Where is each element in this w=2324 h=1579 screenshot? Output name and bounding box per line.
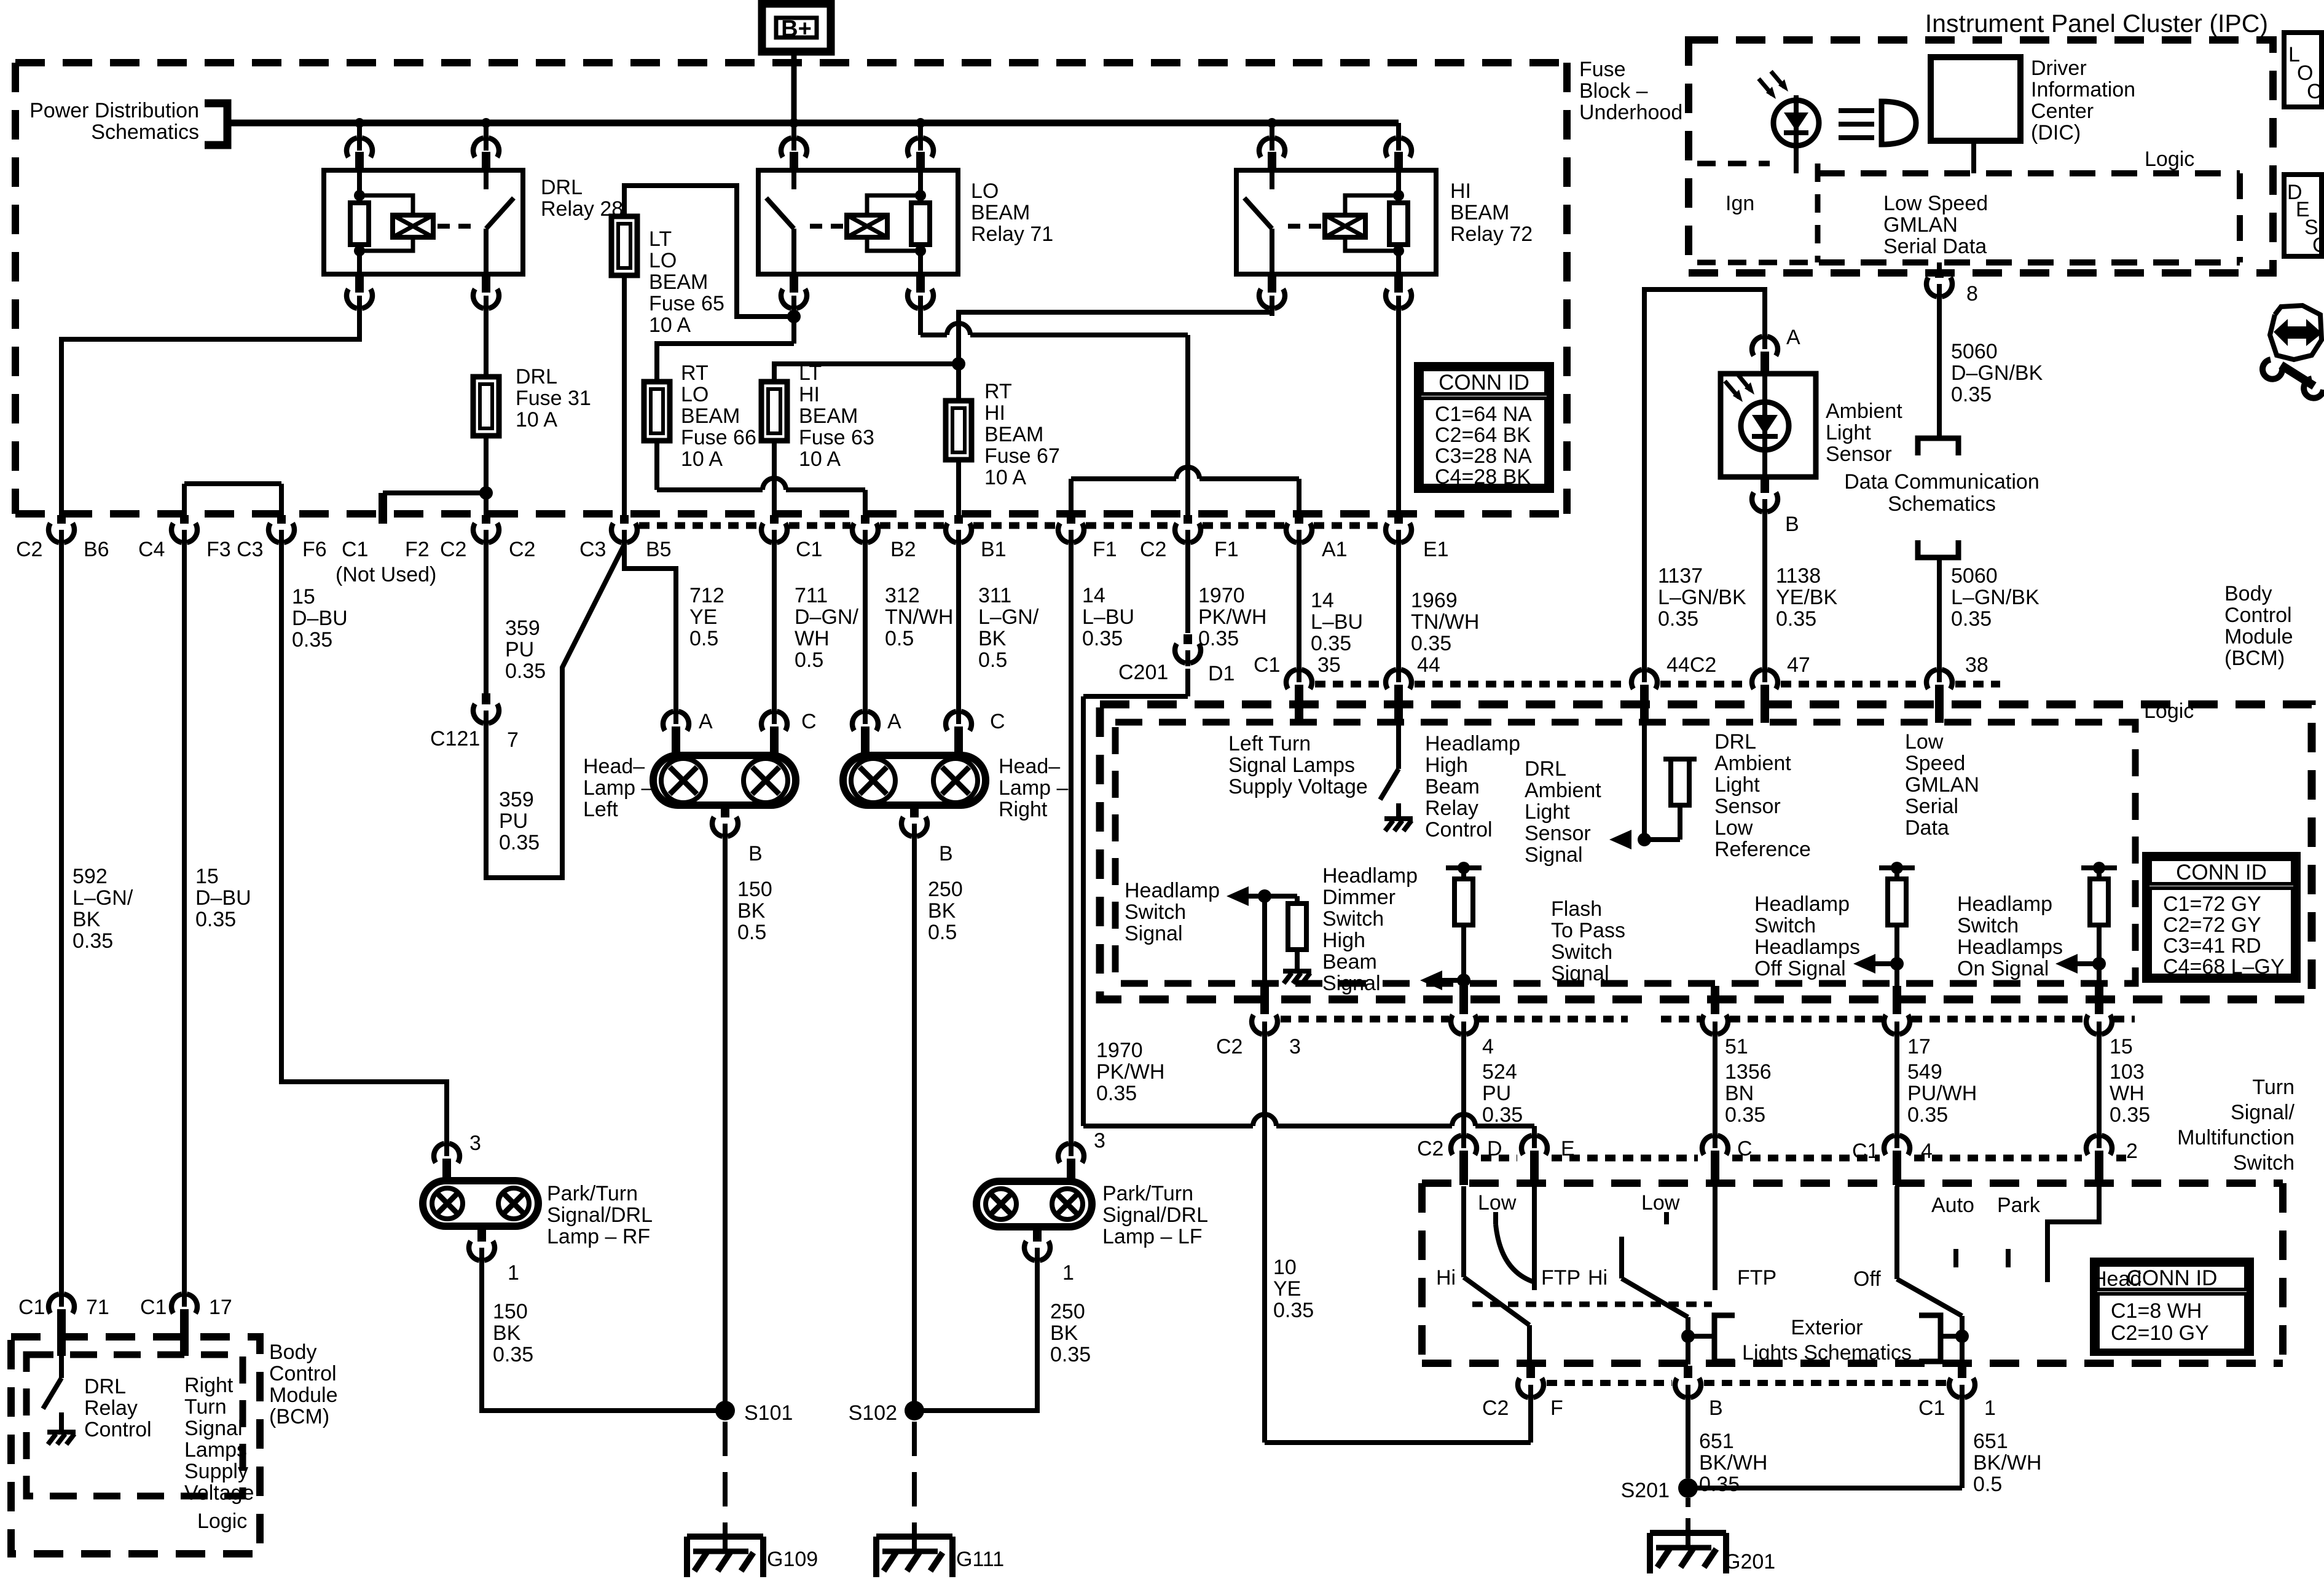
label Data Communication Schematics: [1844, 470, 2039, 516]
wire main bus: [227, 120, 1399, 127]
svg-text:Ambient: Ambient: [1714, 752, 1791, 775]
wire fuse63 to pin C1: [772, 441, 777, 515]
connector cup LO relay pin 85: [908, 274, 933, 316]
svg-text:0.5: 0.5: [885, 627, 914, 650]
labels switch bottom pins: [1482, 1396, 1996, 1420]
svg-text:BK: BK: [737, 899, 766, 923]
svg-text:GMLAN: GMLAN: [1905, 773, 1979, 797]
svg-text:Right: Right: [184, 1374, 234, 1397]
connector cup park lamp LF pin 3: [1058, 1140, 1084, 1181]
svg-text:A: A: [887, 710, 901, 733]
label (Not Used): [336, 563, 436, 586]
svg-text:C2=10 GY: C2=10 GY: [2111, 1321, 2209, 1345]
label pin B left headlamp: [748, 842, 763, 865]
label DRL Ambient Light Sensor Signal: [1525, 757, 1601, 867]
fuse block underhood dashed box: [15, 63, 1567, 514]
svg-text:Low: Low: [1714, 816, 1753, 840]
label 312 TN/WH 0.5: [885, 584, 953, 650]
label Headlamp Switch Headlamps Off Signal: [1754, 892, 1860, 980]
body control module 2 dashed box: [11, 1337, 260, 1554]
svg-text:Control: Control: [84, 1418, 152, 1441]
DRL relay coil symbol: [393, 215, 433, 237]
lamp Park/Turn Signal/DRL Lamp LF: [976, 1181, 1092, 1227]
svg-text:1970: 1970: [1096, 1039, 1143, 1062]
connector cup fuse block C2 pin B6: [49, 515, 74, 546]
lamp Headlamp Right: [843, 755, 986, 805]
svg-text:C2=72 GY: C2=72 GY: [2163, 913, 2261, 937]
label pin 1 RF: [508, 1261, 519, 1285]
svg-text:CONN ID: CONN ID: [2176, 860, 2267, 884]
svg-text:TN/WH: TN/WH: [1411, 610, 1479, 634]
wire 1356 BN: [1713, 1036, 1717, 1135]
svg-text:DRL: DRL: [1714, 730, 1756, 754]
svg-text:WH: WH: [2110, 1082, 2145, 1105]
svg-text:Relay: Relay: [1425, 797, 1478, 820]
svg-text:1970: 1970: [1198, 584, 1245, 607]
label Fuse Block - Underhood: [1579, 58, 1682, 124]
svg-text:DRL: DRL: [1525, 757, 1566, 781]
wire flash feed down to pin F1C2: [1185, 335, 1190, 515]
svg-text:C201: C201: [1118, 661, 1168, 684]
wire BCM 44C2 to sensor A: [1644, 289, 1765, 667]
wire fuse66 to pin B2: [657, 441, 865, 515]
svg-text:Relay 71: Relay 71: [971, 222, 1053, 246]
relay LO BEAM Relay 71 box: [758, 170, 958, 274]
svg-text:Turn: Turn: [2252, 1076, 2295, 1099]
svg-text:Low: Low: [1478, 1191, 1517, 1215]
svg-text:Park/Turn: Park/Turn: [547, 1182, 638, 1205]
connector cup headlamp left pin C: [761, 708, 787, 755]
wire 250 BK 0.35: [914, 1262, 1037, 1411]
connector cup switch pin D: [1451, 1132, 1477, 1185]
svg-text:F2: F2: [405, 538, 430, 561]
DRL relay coil resistor: [350, 170, 369, 274]
label Head: [2092, 1267, 2141, 1291]
connector cup BCM pin 35: [1286, 666, 1312, 723]
wire B+ to bus: [791, 52, 797, 123]
box DESC: [2284, 175, 2324, 257]
svg-text:BEAM: BEAM: [971, 201, 1030, 224]
connector cup fuse block C2 pin C2: [473, 515, 499, 546]
dimmer switch Low blade: [1496, 1224, 1534, 1282]
svg-text:1: 1: [508, 1261, 519, 1285]
connector cup fuse block C3 pin F6: [269, 515, 294, 546]
connector cup fuse block C4 pin F3: [171, 515, 197, 546]
svg-text:BEAM: BEAM: [649, 270, 708, 294]
table CONN ID switch: [2094, 1261, 2250, 1352]
svg-text:C: C: [801, 710, 817, 733]
svg-text:C1=8 WH: C1=8 WH: [2111, 1299, 2202, 1323]
connector cup switch pin E: [1521, 1132, 1547, 1185]
svg-text:311: 311: [978, 584, 1011, 607]
label Body Control Module (BCM): [2224, 582, 2293, 670]
label pin 3 RF: [469, 1132, 481, 1155]
flash switch Hi contact: [1619, 1237, 1624, 1278]
svg-text:GMLAN: GMLAN: [1883, 213, 1958, 237]
labels BCM2 pins: [18, 1296, 232, 1319]
lamp Headlamp Left: [653, 755, 796, 805]
svg-text:0.35: 0.35: [195, 908, 236, 931]
svg-text:Park: Park: [1997, 1194, 2041, 1217]
label Low Speed GMLAN Serial Data BCM: [1905, 730, 1979, 840]
svg-text:S102: S102: [849, 1401, 897, 1425]
svg-text:1138: 1138: [1776, 564, 1821, 588]
svg-text:10 A: 10 A: [681, 447, 723, 471]
svg-text:Driver: Driver: [2031, 57, 2087, 80]
svg-text:Off: Off: [1853, 1267, 1881, 1291]
connector cup switch pin 4: [1884, 1132, 1910, 1185]
svg-text:C1: C1: [1254, 653, 1280, 677]
svg-text:0.5: 0.5: [689, 627, 718, 650]
svg-text:A: A: [1786, 326, 1800, 349]
svg-text:0.5: 0.5: [978, 648, 1007, 672]
wire DRL relay 87 to Fuse 31: [484, 310, 489, 377]
svg-text:711: 711: [795, 584, 828, 607]
svg-text:C2: C2: [16, 538, 42, 561]
connector cup switch pin 2: [2086, 1132, 2112, 1185]
box Driver Information Center (DIC): [1931, 57, 2020, 141]
svg-text:0.35: 0.35: [1050, 1343, 1091, 1366]
svg-text:C1: C1: [342, 538, 368, 561]
svg-text:250: 250: [928, 878, 963, 901]
label Low dimmer: [1478, 1191, 1517, 1215]
svg-text:PU/WH: PU/WH: [1907, 1082, 1977, 1105]
wire fuse31 to junction: [484, 436, 489, 493]
wire S102 to G111: [912, 1422, 917, 1535]
headlamp switch Park contact: [2006, 1249, 2011, 1267]
svg-text:0.35: 0.35: [1411, 632, 1451, 655]
svg-text:Flash: Flash: [1551, 897, 1602, 921]
svg-text:71: 71: [86, 1296, 109, 1319]
svg-text:Speed: Speed: [1905, 752, 1965, 775]
svg-text:Headlamp: Headlamp: [1754, 892, 1850, 916]
turn signal multifunction switch dashed box: [1422, 1183, 2283, 1363]
label 5060 D-GN/BK 0.35: [1951, 340, 2043, 406]
wire 150 BK 0.35: [482, 1262, 725, 1411]
connector cup park lamp LF pin 1: [1024, 1227, 1050, 1264]
wire fuse31 junction to pin C2: [484, 493, 489, 515]
LO relay coil symbol: [847, 215, 887, 237]
connector cup BCM pin 47: [1752, 666, 1778, 723]
IPC headlamp-on indicator photocell: [1759, 71, 1819, 173]
svg-text:C2: C2: [509, 538, 535, 561]
svg-text:Light: Light: [1714, 773, 1760, 797]
connector cup fuse block pin E1: [1386, 515, 1411, 546]
label Park/Turn Signal/DRL Lamp RF: [547, 1182, 653, 1248]
svg-text:High: High: [1425, 754, 1468, 777]
svg-text:B: B: [1785, 513, 1799, 536]
connector cup fuse block pin C1: [761, 515, 787, 546]
wire LO87 to Fuse 65: [624, 186, 794, 317]
LO relay coil-switch link: [810, 224, 844, 229]
svg-text:C3=28 NA: C3=28 NA: [1435, 444, 1532, 468]
BCM bottom connector dotted line: [1281, 1016, 2135, 1023]
svg-text:Switch: Switch: [1125, 900, 1186, 924]
wire fuse67 to pin B1: [956, 460, 961, 515]
svg-text:0.35: 0.35: [1725, 1103, 1765, 1127]
svg-text:Headlamps: Headlamps: [1957, 935, 2063, 959]
svg-text:0.35: 0.35: [1951, 383, 1992, 406]
label LO BEAM Relay 71: [971, 179, 1053, 246]
wire 14 L-BU to LF lamp: [1069, 545, 1074, 1143]
label C121: [430, 727, 480, 750]
svg-text:G109: G109: [767, 1548, 818, 1571]
wire 103 WH: [2097, 1036, 2102, 1135]
svg-text:10 A: 10 A: [799, 447, 841, 471]
svg-text:C2: C2: [1482, 1396, 1509, 1420]
headlamp switch Off blade: [1897, 1279, 1969, 1364]
svg-text:Logic: Logic: [2145, 148, 2194, 171]
svg-text:LT: LT: [649, 227, 672, 251]
svg-text:LO: LO: [971, 179, 999, 203]
svg-text:Control: Control: [269, 1362, 337, 1385]
splice S201: [1678, 1478, 1698, 1498]
svg-text:Dimmer: Dimmer: [1322, 886, 1396, 909]
svg-text:Logic: Logic: [2144, 699, 2194, 723]
svg-text:Center: Center: [2031, 100, 2094, 123]
label Headlamp Switch Headlamps On Signal: [1957, 892, 2063, 980]
svg-text:To Pass: To Pass: [1551, 919, 1625, 942]
connector cup switch bottom pin F: [1518, 1366, 1544, 1401]
svg-text:YE/BK: YE/BK: [1776, 586, 1837, 609]
label LT LO BEAM Fuse 65 10 A: [649, 227, 724, 337]
relay DRL Relay 28 box: [324, 170, 523, 274]
label 15 D-BU 0.35: [292, 585, 348, 652]
junction dot bus at DRL relay 86: [355, 118, 364, 128]
BCM2 DRL relay control switch: [43, 1356, 76, 1444]
label Turn Signal Multifunction Switch: [2177, 1076, 2295, 1175]
label Ign: [1725, 192, 1754, 215]
fuse LT LO BEAM Fuse 65 10A: [611, 216, 637, 275]
label Instrument Panel Cluster (IPC): [1925, 9, 2268, 37]
DRL relay coil branch: [359, 195, 413, 251]
label 15 D-BU 0.35 left: [195, 865, 251, 931]
svg-text:0.5: 0.5: [1973, 1473, 2002, 1496]
flash switch Low contact: [1664, 1212, 1669, 1224]
wire 1970 PK/WH to switch E: [1083, 669, 1534, 1135]
svg-text:Switch: Switch: [1322, 907, 1384, 931]
label Off: [1853, 1267, 1881, 1291]
connector cup LO relay pin 87: [781, 274, 807, 316]
label Park/Turn Signal/DRL Lamp LF: [1102, 1182, 1208, 1248]
label 651 BK/WH 0.5: [1973, 1430, 2041, 1496]
svg-text:Power Distribution: Power Distribution: [29, 99, 199, 122]
svg-text:PK/WH: PK/WH: [1096, 1060, 1164, 1084]
svg-text:Exterior: Exterior: [1791, 1316, 1863, 1339]
instrument panel cluster dashed box: [1689, 40, 2273, 273]
svg-text:Supply: Supply: [184, 1460, 248, 1483]
connector cup sensor pin A: [1752, 333, 1778, 374]
junction dot bus at B+/LO relay: [789, 118, 799, 128]
svg-text:C3: C3: [579, 538, 606, 561]
junction dot fuse31 output: [479, 486, 493, 500]
svg-text:B5: B5: [646, 538, 672, 561]
wire 5060 L-GN/BK: [1937, 557, 1942, 666]
label 359 PU 0.35 upper: [505, 616, 546, 683]
wire 311 L-GN/BK: [956, 545, 961, 711]
svg-text:Turn: Turn: [184, 1395, 227, 1419]
svg-text:Low Speed: Low Speed: [1883, 192, 1988, 215]
svg-text:Off Signal: Off Signal: [1754, 957, 1846, 980]
svg-text:549: 549: [1907, 1060, 1942, 1084]
label Left Turn Signal Lamps Supply Voltage: [1228, 732, 1368, 798]
svg-text:0.35: 0.35: [1273, 1299, 1314, 1322]
svg-text:(DIC): (DIC): [2031, 121, 2081, 144]
label 5060 L-GN/BK 0.35: [1951, 564, 2039, 631]
svg-text:359: 359: [499, 788, 534, 811]
connector cup HI relay pin 85: [1386, 274, 1411, 316]
svg-text:0.5: 0.5: [737, 921, 766, 944]
wire DIC to logic: [1971, 141, 1976, 173]
ground G109: [687, 1532, 763, 1577]
svg-text:Information: Information: [2031, 78, 2135, 101]
svg-text:E: E: [1561, 1137, 1575, 1160]
svg-text:Lamp – LF: Lamp – LF: [1102, 1225, 1203, 1248]
svg-text:Light: Light: [1525, 800, 1570, 824]
svg-text:15: 15: [2110, 1035, 2133, 1058]
svg-text:BK: BK: [978, 627, 1007, 650]
label pin 8: [1966, 282, 1978, 305]
svg-text:Data: Data: [1905, 816, 1949, 840]
label HI BEAM Relay 72: [1450, 179, 1533, 246]
svg-text:Body: Body: [269, 1341, 317, 1364]
wire LO relay 85 to flash feed: [921, 310, 1188, 335]
svg-text:14: 14: [1311, 589, 1334, 612]
svg-text:HI: HI: [984, 401, 1005, 425]
connector cup fuse block pin B2: [852, 515, 878, 546]
svg-text:C4: C4: [138, 538, 165, 561]
svg-text:312: 312: [885, 584, 920, 607]
labels BCM bottom pins: [1216, 1035, 2133, 1058]
label pin A right headlamp: [887, 710, 901, 733]
svg-text:FTP: FTP: [1737, 1266, 1776, 1290]
svg-text:F3 C3: F3 C3: [206, 538, 264, 561]
wire 15 D-BU to BCM 17: [182, 545, 187, 1293]
svg-text:Beam: Beam: [1425, 775, 1480, 798]
svg-text:C2: C2: [1140, 538, 1166, 561]
svg-text:Fuse 66: Fuse 66: [681, 426, 756, 449]
relay HI BEAM Relay 72 box: [1236, 170, 1436, 274]
svg-text:E1: E1: [1423, 538, 1449, 561]
svg-text:Signal Lamps: Signal Lamps: [1228, 754, 1355, 777]
svg-text:Logic: Logic: [197, 1510, 247, 1533]
connector cup fuse block pin B1: [946, 515, 972, 546]
label Logic BCM2: [197, 1510, 247, 1533]
svg-text:BEAM: BEAM: [1450, 201, 1509, 224]
svg-text:PU: PU: [1482, 1082, 1511, 1105]
label Low flash: [1641, 1191, 1680, 1215]
svg-text:Signal/: Signal/: [2231, 1101, 2295, 1124]
svg-text:4: 4: [1482, 1035, 1494, 1058]
svg-text:C: C: [1737, 1137, 1753, 1160]
wire DRL relay 85 to pin B6: [61, 310, 359, 515]
label Park: [1997, 1194, 2041, 1217]
svg-text:0.5: 0.5: [795, 648, 823, 672]
labels fuse block connector row 1: [16, 538, 535, 561]
BCM top connector dotted line: [1315, 681, 2000, 688]
svg-text:2: 2: [2126, 1140, 2138, 1163]
fuse LT HI BEAM Fuse 63 10A: [761, 382, 787, 441]
svg-text:Control: Control: [1425, 818, 1493, 841]
label Headlamp High Beam Relay Control: [1425, 732, 1520, 841]
label RT HI BEAM Fuse 67 10 A: [984, 380, 1060, 489]
wire junction to Fuse 63: [774, 364, 959, 382]
svg-text:8: 8: [1966, 282, 1978, 305]
svg-text:C1: C1: [140, 1296, 167, 1319]
svg-text:High: High: [1322, 929, 1365, 952]
svg-text:0.35: 0.35: [499, 831, 540, 854]
IPC headlamp beam icon: [1839, 101, 1916, 144]
svg-text:Fuse: Fuse: [1579, 58, 1626, 81]
label S101: [744, 1401, 793, 1425]
svg-text:B: B: [939, 842, 953, 865]
svg-text:C2: C2: [440, 538, 466, 561]
svg-text:C1: C1: [1918, 1396, 1945, 1420]
svg-text:150: 150: [493, 1300, 528, 1323]
bracket power distribution feed: [205, 103, 227, 145]
connector cup park lamp RF pin 3: [434, 1140, 460, 1181]
svg-text:L–GN/BK: L–GN/BK: [1658, 586, 1746, 609]
headlamp switch wire from pin 4: [1894, 1186, 1899, 1279]
svg-text:Switch: Switch: [1957, 914, 2019, 937]
label Ambient Light Sensor: [1826, 400, 1902, 466]
svg-text:S101: S101: [744, 1401, 793, 1425]
svg-text:C: C: [990, 710, 1005, 733]
junction dot bus at DRL relay 30: [481, 118, 491, 128]
connector cup BCM pin 3: [1252, 986, 1278, 1038]
BCM headlamps on network: [2055, 862, 2117, 988]
svg-text:Data Communication: Data Communication: [1844, 470, 2039, 494]
svg-text:Head–: Head–: [999, 755, 1060, 778]
svg-text:Hi: Hi: [1436, 1266, 1456, 1290]
wire 5060 D-GN/BK: [1937, 299, 1942, 438]
svg-text:17: 17: [209, 1296, 232, 1319]
svg-text:LO: LO: [649, 249, 677, 272]
svg-text:Signal/DRL: Signal/DRL: [1102, 1203, 1208, 1227]
wire 10 YE: [1265, 1036, 1531, 1443]
svg-text:Auto: Auto: [1931, 1194, 1974, 1217]
svg-text:LT: LT: [799, 361, 822, 385]
label Logic IPC: [2145, 148, 2194, 171]
label Right Turn Signal Lamps Supply Voltage: [184, 1374, 254, 1505]
svg-text:150: 150: [737, 878, 772, 901]
label 14 L-BU 0.35 left: [1082, 584, 1134, 650]
svg-text:C4=68 L–GY: C4=68 L–GY: [2163, 955, 2285, 979]
svg-text:Signal: Signal: [1525, 843, 1583, 867]
svg-text:WH: WH: [795, 627, 830, 650]
connector cup HI relay pin 87: [1259, 274, 1285, 316]
connector cup IPC pin 8: [1926, 273, 1952, 300]
battery feed B+ terminal: [762, 4, 831, 52]
svg-text:BK: BK: [1050, 1321, 1078, 1345]
svg-text:Fuse 31: Fuse 31: [516, 387, 591, 410]
ground G201: [1650, 1528, 1726, 1573]
svg-text:Sensor: Sensor: [1714, 795, 1781, 818]
label 1356 BN 0.35: [1725, 1060, 1772, 1127]
label Auto: [1931, 1194, 1974, 1217]
label 10 YE 0.35: [1273, 1256, 1314, 1322]
svg-text:DRL: DRL: [84, 1375, 126, 1398]
svg-text:A1: A1: [1322, 538, 1348, 561]
svg-text:651: 651: [1699, 1430, 1734, 1453]
svg-text:CONN ID: CONN ID: [2127, 1266, 2218, 1290]
svg-text:B: B: [1709, 1396, 1723, 1420]
svg-text:0.5: 0.5: [928, 921, 957, 944]
svg-text:3: 3: [469, 1132, 481, 1155]
label Low Speed GMLAN Serial Data IPC: [1883, 192, 1988, 258]
svg-text:(BCM): (BCM): [269, 1405, 329, 1428]
label Hi flash: [1588, 1266, 1608, 1290]
